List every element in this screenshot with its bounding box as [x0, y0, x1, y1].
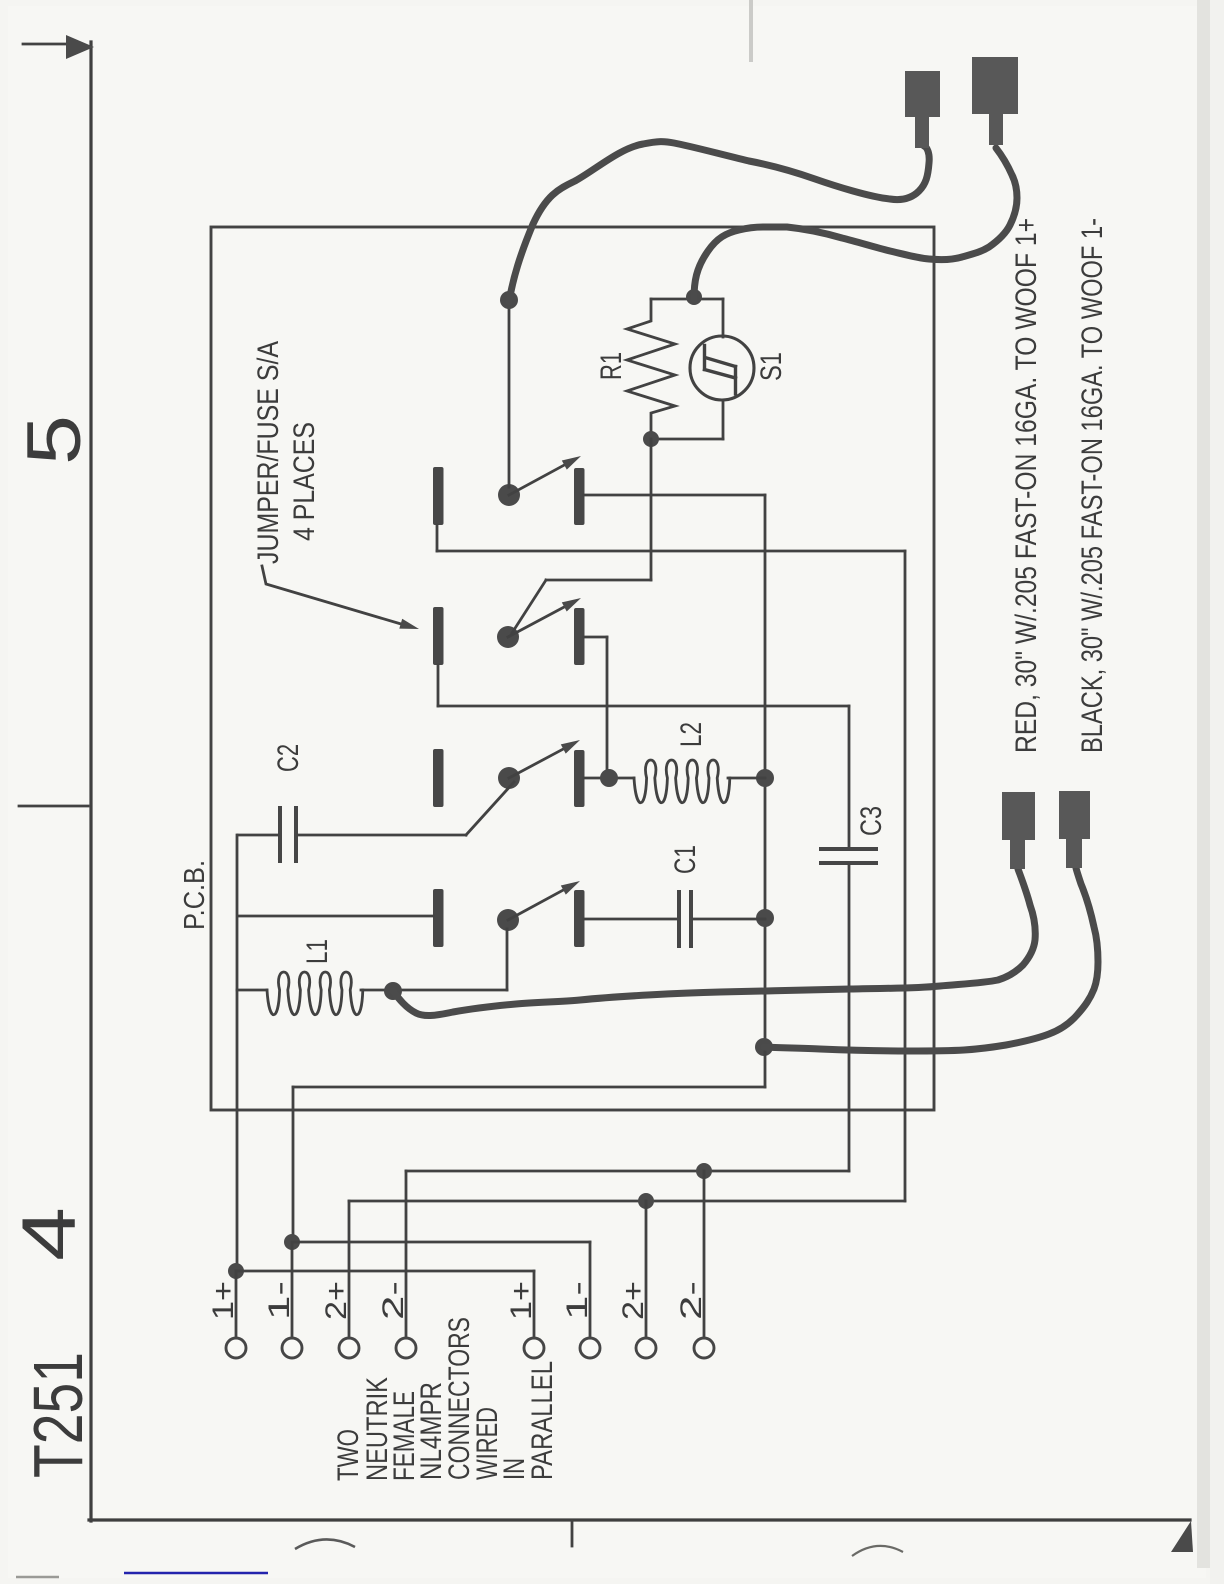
wire terminal 2minus B drop — [703, 1171, 706, 1339]
zone divider tick — [19, 805, 88, 808]
wire L2 right lead — [728, 777, 765, 780]
node terminal 2minus junction — [696, 1163, 712, 1179]
wire to J2 contact diagonal — [512, 580, 546, 633]
jumper/fuse J2 contact arrow — [508, 606, 567, 638]
svg-text:BLACK, 30" W/.205 FAST-ON 16GA: BLACK, 30" W/.205 FAST-ON 16GA. TO WOOF … — [1076, 218, 1109, 753]
terminal 2+ pin circle — [636, 1338, 656, 1358]
jumper/fuse J2 left clip bar — [433, 607, 444, 665]
wire terminal 1plus B drop — [533, 1271, 536, 1339]
wire J4 right bar feed — [584, 918, 678, 921]
svg-text:JUMPER/FUSE S/A: JUMPER/FUSE S/A — [252, 341, 285, 564]
svg-text:PARALLEL: PARALLEL — [526, 1361, 559, 1480]
terminal 2- pin circle — [396, 1338, 416, 1358]
cable to tweeter terminal (from J1 contact) — [509, 142, 929, 302]
jumper/fuse J4 right clip bar — [574, 890, 585, 947]
scan artifact line top center — [749, 0, 753, 62]
jumper/fuse J1 movable contact dot — [498, 484, 520, 506]
wire J3 right bar feed — [584, 777, 634, 780]
terminal 1+ pin circle — [226, 1338, 246, 1358]
fast-on connector D — [1059, 791, 1090, 839]
wire J2 right bar feed — [584, 636, 607, 639]
node C1 right junction — [756, 909, 774, 927]
jumper/fuse J4 movable contact dot — [497, 909, 519, 931]
wire terminal 2plus A drop — [348, 1201, 351, 1339]
fast-on connector B — [972, 57, 1018, 114]
svg-text:L1: L1 — [301, 939, 334, 964]
wire L1 left lead — [237, 989, 267, 992]
node L2 right junction — [756, 769, 774, 787]
wire J4 left bar feed — [238, 915, 433, 918]
jumper/fuse J3 left clip bar — [433, 749, 444, 807]
fast-on connector A — [905, 71, 940, 117]
wire rail 2plus vertical — [904, 551, 907, 1201]
wire rail 2plus horizontal — [437, 550, 905, 553]
wire J2 left bar drop — [437, 665, 440, 706]
wire R1-S1 top rail — [651, 298, 723, 301]
svg-text:2-: 2- — [675, 1281, 708, 1320]
wire rail 2plus bottom — [349, 1200, 905, 1203]
jumper/fuse J3 contact arrow — [509, 748, 566, 778]
svg-text:C1: C1 — [669, 845, 702, 874]
node cable A tap — [500, 291, 518, 309]
svg-text:S1: S1 — [755, 352, 788, 381]
fast-on connector C — [1002, 792, 1035, 840]
svg-text:4 PLACES: 4 PLACES — [288, 422, 321, 541]
wire C1 right lead — [693, 918, 765, 921]
wire S1 top stub — [722, 299, 725, 337]
capacitor C3 — [819, 847, 878, 851]
wire rail 1minus drop — [764, 1047, 767, 1087]
terminal 1- pin circle — [282, 1338, 302, 1358]
wire J1 left bar drop — [436, 525, 439, 551]
jumper/fuse J4 left clip bar — [433, 889, 444, 947]
jumper/fuse J3 movable contact dot — [498, 767, 520, 789]
svg-text:4: 4 — [7, 1207, 92, 1261]
wire rail 1plus bottom — [236, 1270, 534, 1273]
svg-text:2+: 2+ — [617, 1281, 650, 1320]
blue pen mark bottom — [124, 1572, 268, 1575]
capacitor C1 — [677, 890, 681, 948]
terminal 1- pin circle — [580, 1338, 600, 1358]
wire C3 top lead — [848, 706, 851, 847]
scanner edge shadow band right — [1197, 0, 1210, 1568]
jumper/fuse J1 left clip bar — [433, 467, 444, 525]
wire R1-S1 bottom rail — [651, 438, 723, 441]
terminal 2- pin circle — [694, 1338, 714, 1358]
jumper/fuse J4 contact arrow — [508, 889, 566, 920]
wire J1 right bar feed — [584, 494, 765, 497]
svg-text:P.C.B.: P.C.B. — [179, 860, 211, 930]
node R1 bottom junction — [643, 431, 659, 447]
svg-text:1+: 1+ — [207, 1281, 240, 1320]
jumper/fuse J1 right clip bar — [574, 468, 585, 525]
svg-text:L2: L2 — [675, 722, 708, 747]
svg-text:C2: C2 — [272, 744, 305, 772]
wire L1 right lead — [361, 989, 507, 992]
svg-text:C3: C3 — [855, 806, 888, 836]
inductor L1 — [267, 972, 363, 1015]
wire terminal 2minus A drop — [405, 1171, 408, 1339]
wire rail C3 horizontal — [438, 705, 849, 708]
wire J2 to L2 drop — [606, 637, 609, 778]
terminal 2+ pin circle — [339, 1338, 359, 1358]
wire C2 left lead — [238, 834, 278, 837]
jumper/fuse J3 right clip bar — [574, 750, 585, 807]
node L2 left junction — [600, 769, 618, 787]
svg-text:T251: T251 — [19, 1352, 97, 1478]
cable to tweeter return (from R1/S1 node) — [694, 148, 1017, 299]
wire to J2 contact horizontal — [546, 579, 651, 582]
leader line to jumpers — [262, 566, 401, 624]
svg-text:5: 5 — [12, 415, 97, 465]
stray arc mark 1 — [295, 1539, 355, 1549]
wire terminal 1minus B drop — [589, 1242, 592, 1339]
svg-text:2+: 2+ — [320, 1281, 353, 1320]
wire S1 bottom stub — [722, 400, 725, 439]
jumper/fuse J2 movable contact dot — [497, 626, 519, 648]
wire R1 bottom down — [650, 439, 653, 580]
drawing border (top edge of original sheet) — [89, 42, 92, 1521]
node cable C tap — [384, 982, 402, 1000]
gray pencil mark bottom left — [16, 1576, 59, 1578]
svg-text:1-: 1- — [263, 1281, 296, 1320]
inductor L2 — [634, 760, 730, 803]
node terminal 2plus junction — [638, 1193, 654, 1209]
wire C2 to J3 diagonal — [466, 782, 514, 835]
wire J4 contact drop — [506, 929, 509, 990]
wire rail 1plus vertical — [236, 835, 239, 1271]
cable black to woofer 1- (from 1minus rail) — [764, 868, 1098, 1051]
wire rail 1minus bottom — [292, 1241, 590, 1244]
wire terminal 1minus A drop — [291, 1242, 294, 1339]
svg-text:R1: R1 — [595, 352, 628, 380]
wire C3 bottom lead — [848, 865, 851, 1171]
node terminal 1plus junction — [228, 1263, 244, 1279]
wire rail 1minus horizontal — [293, 1086, 765, 1089]
resistor R1 — [627, 299, 675, 439]
wire J1 contact riser — [508, 305, 511, 487]
node tweeter feed junction — [686, 289, 702, 305]
svg-text:2-: 2- — [377, 1281, 410, 1320]
stray arc mark 2 — [852, 1546, 903, 1556]
wire rail 1minus vertical — [764, 495, 767, 1047]
wire C2 right lead — [298, 834, 466, 837]
breaker S1 — [690, 336, 754, 400]
wire rail 1minus lower drop — [292, 1087, 295, 1242]
corner fold mark triangle — [1171, 1521, 1193, 1552]
border arrow marker — [23, 43, 70, 46]
svg-text:1+: 1+ — [505, 1281, 538, 1320]
drawing border (right edge of original sheet) — [89, 1518, 1190, 1521]
P.C.B. board outline — [211, 227, 934, 1110]
wire rail 2minus horizontal — [406, 1170, 849, 1173]
cable red to woofer 1+ (from L1 node) — [393, 869, 1035, 1016]
node terminal 1minus junction — [284, 1234, 300, 1250]
jumper/fuse J2 right clip bar — [574, 608, 585, 665]
wire terminal 1plus A drop — [235, 1271, 238, 1339]
jumper/fuse J1 contact arrow — [509, 464, 567, 495]
border tick mark bottom — [571, 1521, 574, 1546]
terminal 1+ pin circle — [524, 1338, 544, 1358]
node cable D tap — [755, 1038, 773, 1056]
svg-text:RED, 30" W/.205 FAST-ON 16GA.: RED, 30" W/.205 FAST-ON 16GA. TO WOOF 1+ — [1010, 218, 1043, 753]
capacitor C2 — [278, 806, 282, 863]
wire terminal 2plus B drop — [645, 1201, 648, 1339]
svg-text:1-: 1- — [561, 1281, 594, 1320]
